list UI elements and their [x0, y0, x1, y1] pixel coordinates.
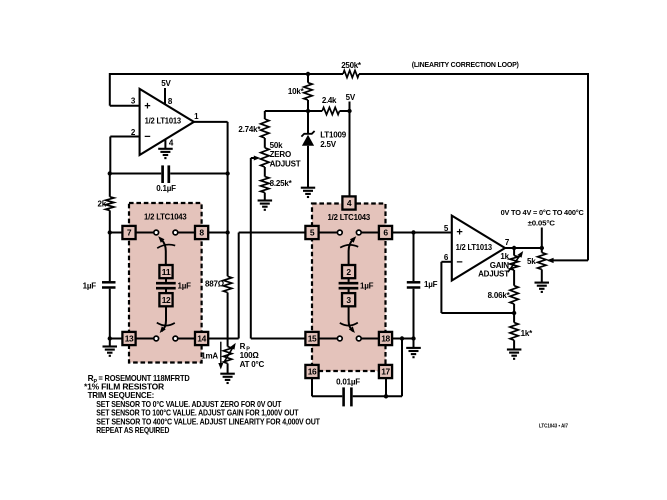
svg-text:5V: 5V [161, 79, 171, 88]
wire node B left [265, 110, 308, 112]
capacitor C 0.1uF [156, 165, 176, 193]
svg-text:5: 5 [310, 228, 315, 238]
node pin18 drop [400, 336, 404, 340]
wire pin5 to contact [319, 232, 338, 234]
wire pin13 to contact [136, 338, 154, 340]
label figure tag [539, 424, 568, 430]
wire pin7 to contact [136, 232, 154, 234]
wire contact to pin18 [361, 338, 379, 340]
svg-text:1/2 LT1013: 1/2 LT1013 [456, 243, 493, 252]
ground right rail [406, 348, 421, 357]
ground 1k* [507, 350, 522, 359]
potentiometer R 5k [527, 248, 546, 269]
resistor R 8.25k* [261, 177, 293, 193]
svg-text:ADJUST: ADJUST [478, 270, 509, 279]
switch S2 upper arc [340, 245, 358, 248]
contact circle S2d [356, 336, 361, 341]
svg-text:17: 17 [381, 367, 390, 377]
svg-text:ADJUST: ADJUST [270, 159, 301, 168]
resistor R 250k* [341, 61, 362, 78]
resistor RP RTD [223, 343, 235, 364]
label RP [240, 342, 265, 369]
wire U1 -input [110, 137, 139, 174]
pin 18 [379, 332, 392, 345]
svg-text:0.1µF: 0.1µF [156, 184, 176, 193]
current arrow 1mA [201, 342, 223, 370]
wire right rail upper [413, 233, 415, 282]
svg-text:(LINEARITY CORRECTION LOOP): (LINEARITY CORRECTION LOOP) [412, 60, 520, 69]
label U1 pin 1 [194, 112, 199, 121]
svg-text:1µF: 1µF [83, 282, 97, 291]
svg-text:8.06k*: 8.06k* [488, 291, 511, 300]
pin 14 [195, 332, 208, 345]
label output [501, 208, 585, 227]
svg-text:1µF: 1µF [424, 280, 438, 289]
wire pin15 to contact [319, 338, 338, 340]
label U1 pin 3 [131, 97, 136, 106]
node pin13 junction [108, 336, 112, 340]
contact circle S2b [356, 230, 361, 235]
capacitor C 0.01uF [336, 378, 360, 407]
wire 2.4k to 5V [340, 110, 350, 112]
svg-text:6: 6 [383, 228, 388, 238]
switch S2 upper arm [349, 236, 357, 266]
IC U2 1/2 LTC1043 box [129, 203, 202, 363]
contact circle S2a [337, 230, 342, 235]
switch S1 upper arm [158, 236, 166, 266]
wire pin13 [110, 338, 123, 340]
node 0.1uF left [108, 171, 112, 175]
wire pin14 right [208, 338, 239, 340]
note trim 4 [96, 425, 169, 435]
resistor R 1k* [510, 323, 533, 341]
capacitor C 1uF flying 2 [339, 278, 374, 293]
note film resistor [84, 382, 164, 392]
svg-text:887Ω: 887Ω [205, 280, 225, 289]
svg-text:1µF: 1µF [178, 282, 192, 291]
svg-text:−: − [144, 131, 150, 143]
node B [306, 109, 310, 113]
wire 887 to RP [227, 293, 229, 347]
note trim 1 [96, 399, 281, 409]
pin 16 [305, 365, 318, 378]
node A top [306, 72, 310, 76]
wire pin6 to opamp [392, 232, 452, 234]
resistor R 8.06k* [488, 286, 519, 304]
svg-text:2.74k*: 2.74k* [238, 125, 261, 134]
svg-text:18: 18 [381, 334, 390, 344]
contact circle S1b [173, 230, 178, 235]
wire linearity loop top [110, 74, 589, 260]
note RP rosemount [88, 373, 190, 385]
wire left rail mid [109, 210, 111, 281]
wire left rail upper [109, 174, 111, 197]
svg-text:250k*: 250k* [341, 61, 362, 70]
svg-text:50k: 50k [270, 141, 283, 150]
svg-text:1mA: 1mA [201, 352, 218, 361]
node pin17 drop [384, 378, 388, 398]
svg-text:REPEAT AS REQUIRED: REPEAT AS REQUIRED [96, 425, 169, 435]
note trim 3 [96, 416, 320, 426]
contact circle S2c [337, 336, 342, 341]
node feedback [512, 311, 516, 315]
resistor R 2.4k [308, 96, 340, 115]
contact circle S1c [154, 336, 159, 341]
wire 8.06k to node [513, 304, 515, 323]
switch S1 lower arm [160, 306, 166, 333]
pin 15 [305, 332, 318, 345]
svg-text:LT1009: LT1009 [320, 130, 347, 139]
svg-text:16: 16 [308, 367, 317, 377]
svg-text:8.25k*: 8.25k* [270, 179, 293, 188]
wire 8.25k to ground [264, 193, 266, 200]
potentiometer R 1k gain adjust [478, 248, 523, 279]
wire contact to pin8 [178, 232, 195, 234]
resistor R 10k* [288, 74, 312, 100]
svg-text:4: 4 [347, 198, 352, 208]
wire 2.74k to 50k [264, 138, 266, 148]
wire U1 pin8 5V [161, 79, 173, 106]
svg-text:2.5V: 2.5V [320, 140, 337, 149]
wire 10k to node [307, 100, 309, 111]
wire 5V to pin4 [349, 111, 351, 197]
svg-text:+: + [456, 227, 462, 239]
ground left rail [103, 347, 118, 356]
pin 13 [122, 332, 135, 345]
svg-text:+: + [144, 101, 150, 113]
contact circle S1a [154, 230, 159, 235]
pin 6 [379, 226, 392, 239]
wire 0.01uF right [353, 339, 402, 397]
switch S1 lower arc [157, 323, 175, 326]
svg-text:3: 3 [346, 295, 351, 305]
wire pin5 to pin14 node [239, 233, 306, 339]
node rail pin18 [411, 336, 415, 340]
ground RP [220, 374, 235, 383]
wire U4 output [505, 247, 542, 249]
wire 50k wiper drop [251, 158, 306, 339]
pin 12 [159, 293, 172, 306]
svg-text:15: 15 [308, 334, 317, 344]
switch S1 upper arc [157, 245, 175, 249]
svg-text:ZERO: ZERO [270, 150, 291, 159]
pin 3 [342, 293, 355, 306]
resistor R 2.74k* [238, 111, 269, 138]
svg-text:2.4k: 2.4k [322, 96, 337, 105]
wire pin7 [110, 232, 123, 234]
label U4 pin 6 [444, 253, 449, 262]
label U4 pin 5 [444, 224, 449, 233]
diode D LT1009 [301, 111, 314, 187]
op-amp U4 1/2 LT1013 [452, 216, 505, 281]
wire 1k* to ground [513, 340, 515, 349]
svg-text:14: 14 [197, 334, 206, 344]
wire U1 +input [110, 73, 140, 106]
svg-text:1/2 LT1013: 1/2 LT1013 [145, 117, 182, 126]
node pin8 junction [225, 230, 229, 234]
pin 5 [305, 226, 318, 239]
svg-text:5k: 5k [527, 257, 536, 266]
pin 7 [122, 226, 135, 239]
resistor R 2k [98, 197, 115, 211]
svg-text:1/2 LTC1043: 1/2 LTC1043 [144, 213, 187, 222]
svg-text:2: 2 [346, 267, 351, 277]
wire U4 -input [441, 262, 514, 313]
svg-text:5V: 5V [346, 93, 356, 102]
label LT1009 [320, 130, 347, 149]
svg-text:1/2 LTC1043: 1/2 LTC1043 [328, 213, 371, 222]
wire U1 output [194, 122, 228, 276]
wire left rail lower [109, 289, 111, 346]
note trim sequence [88, 390, 155, 400]
pin 8 [195, 226, 208, 239]
potentiometer R 50k zero adjust [251, 141, 301, 168]
resistor R 887ohm [205, 276, 232, 292]
pin 11 [159, 265, 172, 278]
wire RP to ground [227, 363, 229, 373]
svg-text:10k*: 10k* [288, 87, 305, 96]
wire contact to pin6 [361, 232, 379, 234]
wire loop to 5k wiper [547, 258, 588, 263]
wire right rail lower [413, 289, 415, 347]
wire pin8 to node [208, 232, 227, 234]
label U1 pin 2 [131, 128, 136, 137]
svg-text:12: 12 [162, 295, 171, 305]
capacitor C 1uF flying 1 [156, 278, 191, 293]
svg-text:LTC1043 • AI7: LTC1043 • AI7 [539, 424, 568, 430]
svg-text:7: 7 [127, 228, 132, 238]
capacitor C 1uF right [407, 280, 438, 289]
svg-text:1k: 1k [500, 252, 509, 261]
svg-text:100Ω: 100Ω [240, 351, 260, 360]
label linearity correction loop [412, 60, 520, 69]
switch S2 lower arc [340, 323, 358, 326]
svg-text:AT 0°C: AT 0°C [240, 360, 265, 369]
ground 5k [535, 283, 550, 292]
ground LT1009 [301, 188, 315, 197]
svg-text:11: 11 [162, 267, 171, 277]
wire contact to pin14 [178, 338, 195, 340]
svg-text:0V TO 4V = 0°C TO 400°C: 0V TO 4V = 0°C TO 400°C [501, 208, 585, 217]
op-amp U1 1/2 LT1013 [140, 89, 194, 155]
IC U3 1/2 LTC1043 box [312, 204, 386, 372]
svg-text:1µF: 1µF [360, 282, 374, 291]
capacitor C 1uF left [83, 282, 116, 291]
node output 1k [512, 246, 516, 250]
pin 4 [342, 196, 355, 209]
ground U1 pin4 [158, 149, 173, 158]
node 0.1uF right [225, 171, 229, 175]
wire pin18 right [392, 338, 413, 340]
svg-text:2k: 2k [98, 200, 107, 209]
wire 5k to ground [541, 269, 543, 282]
wire 0.1uF [110, 173, 228, 175]
switch S2 lower arm [349, 306, 355, 333]
svg-text:−: − [456, 256, 462, 268]
node pin7 junction [108, 230, 112, 234]
svg-text:0.01µF: 0.01µF [336, 378, 360, 387]
ground 8.25k [258, 201, 273, 210]
wire 1k to 8.06k [513, 270, 515, 286]
wire 0.01uF left [312, 378, 342, 396]
wire U1 pin4 [165, 138, 173, 148]
node rail top [411, 230, 415, 234]
svg-text:1k*: 1k* [521, 329, 533, 338]
svg-text:1: 1 [194, 112, 199, 121]
wire output stub [541, 228, 543, 249]
note trim 2 [96, 408, 298, 418]
svg-text:13: 13 [125, 334, 134, 344]
wire 50k to 8.25k [264, 167, 266, 177]
svg-text:R: R [240, 342, 246, 351]
node 5V [346, 93, 356, 113]
pin 17 [379, 365, 392, 378]
pin 2 [342, 265, 355, 278]
label U4 pin 7 [505, 238, 510, 247]
contact circle S1d [173, 336, 178, 341]
node output 5k [540, 246, 544, 250]
svg-text:8: 8 [199, 228, 204, 238]
svg-text:±0.05°C: ±0.05°C [528, 218, 556, 227]
